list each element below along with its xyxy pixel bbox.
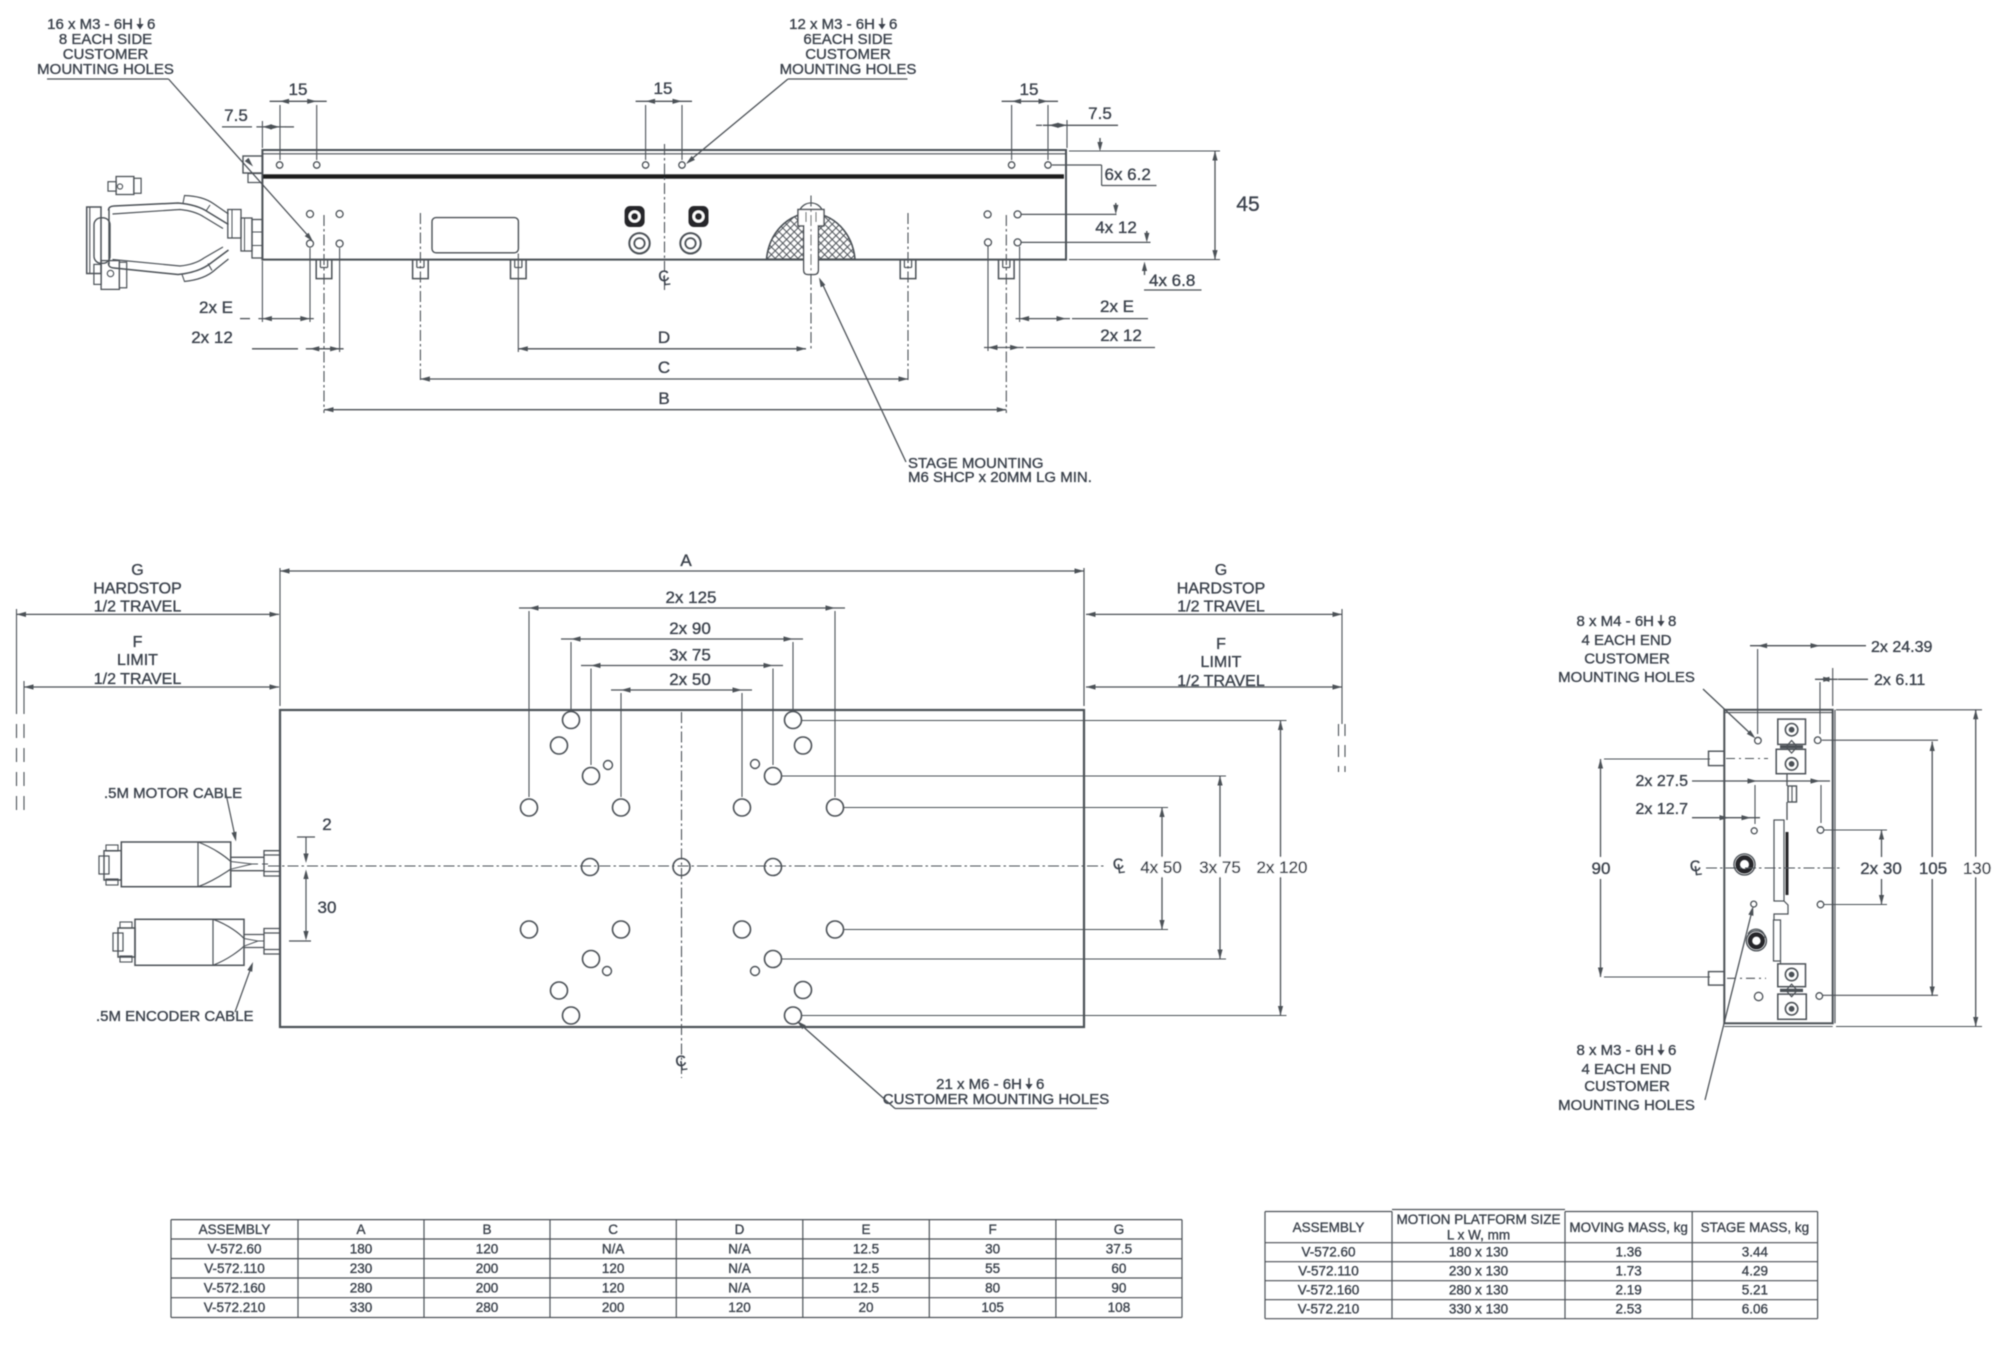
svg-text:15: 15 [654,79,673,98]
svg-text:180 x 130: 180 x 130 [1449,1245,1508,1260]
svg-text:12.5: 12.5 [853,1242,879,1257]
svg-text:V-572.60: V-572.60 [1301,1245,1355,1260]
svg-text:4x 50: 4x 50 [1140,858,1182,877]
svg-text:180: 180 [350,1242,373,1257]
svg-text:90: 90 [1592,859,1611,878]
svg-text:108: 108 [1108,1300,1131,1315]
svg-text:4 EACH END: 4 EACH END [1581,632,1671,649]
svg-text:130: 130 [1963,859,1991,878]
svg-text:L x W, mm: L x W, mm [1447,1228,1510,1243]
svg-text:D: D [735,1222,745,1237]
svg-text:45: 45 [1236,193,1259,216]
svg-text:MOUNTING HOLES: MOUNTING HOLES [1558,669,1695,686]
svg-text:HARDSTOP: HARDSTOP [93,581,182,598]
svg-text:MOVING MASS, kg: MOVING MASS, kg [1569,1220,1688,1235]
svg-text:2x 12: 2x 12 [191,328,233,347]
svg-text:L: L [1116,861,1125,877]
svg-text:L: L [662,273,671,289]
svg-text:2x 90: 2x 90 [669,619,711,638]
svg-text:1.36: 1.36 [1615,1245,1641,1260]
svg-text:ASSEMBLY: ASSEMBLY [1293,1220,1365,1235]
svg-text:1/2 TRAVEL: 1/2 TRAVEL [1177,599,1265,616]
svg-text:55: 55 [985,1261,1000,1276]
svg-text:L: L [679,1058,688,1074]
svg-text:7.5: 7.5 [1088,104,1112,123]
svg-text:3x 75: 3x 75 [669,646,711,665]
svg-text:V-572.160: V-572.160 [204,1281,266,1296]
svg-text:12.5: 12.5 [853,1281,879,1296]
svg-text:80: 80 [985,1281,1000,1296]
svg-text:C: C [608,1222,618,1237]
svg-text:200: 200 [476,1261,499,1276]
svg-text:F: F [133,634,143,651]
svg-text:N/A: N/A [728,1261,751,1276]
svg-text:2x 24.39: 2x 24.39 [1871,639,1932,656]
svg-text:MOTION PLATFORM SIZE: MOTION PLATFORM SIZE [1396,1212,1560,1227]
svg-text:G: G [1215,562,1227,579]
svg-text:MOUNTING HOLES: MOUNTING HOLES [1558,1097,1695,1114]
svg-text:ASSEMBLY: ASSEMBLY [199,1222,271,1237]
svg-text:6x 6.2: 6x 6.2 [1105,165,1151,184]
svg-text:90: 90 [1111,1281,1126,1296]
svg-text:MOUNTING HOLES: MOUNTING HOLES [37,61,174,78]
svg-text:8: 8 [1668,613,1676,630]
svg-text:6: 6 [1668,1042,1676,1059]
svg-text:C: C [658,358,670,377]
svg-text:A: A [356,1222,365,1237]
svg-text:B: B [482,1222,491,1237]
svg-text:N/A: N/A [602,1242,625,1257]
svg-text:G: G [131,562,143,579]
svg-text:MOUNTING HOLES: MOUNTING HOLES [780,61,917,78]
svg-text:280: 280 [350,1281,373,1296]
svg-text:CUSTOMER: CUSTOMER [1584,651,1670,668]
svg-text:105: 105 [981,1300,1004,1315]
svg-text:2x 120: 2x 120 [1256,858,1307,877]
svg-text:30: 30 [985,1242,1000,1257]
svg-text:4x 12: 4x 12 [1095,218,1137,237]
svg-text:3x 75: 3x 75 [1199,858,1241,877]
svg-text:37.5: 37.5 [1106,1242,1132,1257]
svg-text:2: 2 [322,815,331,834]
svg-text:12.5: 12.5 [853,1261,879,1276]
svg-text:V-572.160: V-572.160 [1298,1283,1360,1298]
svg-text:HARDSTOP: HARDSTOP [1177,581,1266,598]
svg-text:230: 230 [350,1261,373,1276]
svg-text:20: 20 [859,1300,874,1315]
svg-text:2.19: 2.19 [1615,1283,1641,1298]
svg-text:15: 15 [289,80,308,99]
svg-text:230 x 130: 230 x 130 [1449,1264,1508,1279]
svg-text:B: B [658,389,669,408]
svg-text:.5M MOTOR CABLE: .5M MOTOR CABLE [104,785,242,802]
svg-text:120: 120 [476,1242,499,1257]
svg-text:LIMIT: LIMIT [1201,654,1242,671]
svg-text:STAGE MASS, kg: STAGE MASS, kg [1701,1220,1810,1235]
svg-text:8 x M3 - 6H: 8 x M3 - 6H [1576,1042,1654,1059]
svg-text:2x 50: 2x 50 [669,670,711,689]
svg-text:120: 120 [728,1300,751,1315]
svg-text:.5M ENCODER CABLE: .5M ENCODER CABLE [96,1008,254,1025]
svg-text:2x 125: 2x 125 [665,588,716,607]
svg-text:V-572.110: V-572.110 [204,1261,265,1276]
svg-text:4 EACH END: 4 EACH END [1581,1061,1671,1078]
svg-text:L: L [1693,863,1702,879]
svg-text:1/2 TRAVEL: 1/2 TRAVEL [94,599,182,616]
svg-text:30: 30 [318,898,337,917]
svg-text:4x 6.8: 4x 6.8 [1149,271,1195,290]
svg-text:280: 280 [476,1300,499,1315]
svg-text:2x 27.5: 2x 27.5 [1636,773,1689,790]
svg-text:E: E [862,1222,871,1237]
svg-text:LIMIT: LIMIT [117,652,158,669]
svg-text:V-572.210: V-572.210 [204,1300,266,1315]
svg-text:CUSTOMER MOUNTING HOLES: CUSTOMER MOUNTING HOLES [883,1091,1109,1108]
svg-text:3.44: 3.44 [1742,1245,1769,1260]
svg-text:N/A: N/A [728,1281,751,1296]
svg-text:V-572.210: V-572.210 [1298,1302,1360,1317]
svg-text:CUSTOMER: CUSTOMER [1584,1078,1670,1095]
svg-text:5.21: 5.21 [1742,1283,1768,1298]
svg-text:F: F [988,1222,996,1237]
svg-text:1.73: 1.73 [1615,1264,1641,1279]
svg-text:2.53: 2.53 [1615,1302,1641,1317]
svg-text:7.5: 7.5 [224,106,248,125]
svg-text:330 x 130: 330 x 130 [1449,1302,1508,1317]
svg-text:2x E: 2x E [1100,297,1134,316]
svg-text:200: 200 [476,1281,499,1296]
svg-text:200: 200 [602,1300,625,1315]
svg-text:G: G [1114,1222,1125,1237]
svg-text:V-572.110: V-572.110 [1298,1264,1359,1279]
svg-text:2x E: 2x E [199,298,233,317]
svg-text:V-572.60: V-572.60 [207,1242,261,1257]
svg-text:1/2 TRAVEL: 1/2 TRAVEL [94,671,182,688]
svg-text:120: 120 [602,1261,625,1276]
svg-text:2x 30: 2x 30 [1860,859,1902,878]
svg-text:280 x 130: 280 x 130 [1449,1283,1508,1298]
svg-text:15: 15 [1020,80,1039,99]
svg-text:M6 SHCP x 20MM LG MIN.: M6 SHCP x 20MM LG MIN. [908,469,1092,486]
svg-text:330: 330 [350,1300,373,1315]
svg-text:120: 120 [602,1281,625,1296]
svg-text:2x 12.7: 2x 12.7 [1636,801,1689,818]
svg-text:8 x M4 - 6H: 8 x M4 - 6H [1576,613,1654,630]
svg-text:F: F [1216,636,1226,653]
svg-text:D: D [658,328,670,347]
svg-text:4.29: 4.29 [1742,1264,1768,1279]
svg-text:6.06: 6.06 [1742,1302,1768,1317]
svg-text:105: 105 [1919,859,1947,878]
svg-text:2x 12: 2x 12 [1100,326,1142,345]
svg-text:60: 60 [1111,1261,1126,1276]
svg-text:N/A: N/A [728,1242,751,1257]
svg-text:2x 6.11: 2x 6.11 [1874,672,1925,689]
svg-text:A: A [680,551,692,570]
